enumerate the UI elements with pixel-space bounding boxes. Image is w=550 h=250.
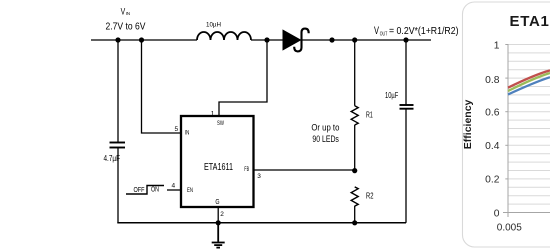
svg-text:5: 5	[175, 126, 179, 133]
svg-text:V: V	[374, 25, 379, 37]
svg-text:1: 1	[211, 110, 215, 117]
curve red	[508, 70, 550, 87]
capacitor C1 4.7uF plates	[110, 143, 126, 148]
svg-text:10µH: 10µH	[206, 22, 221, 29]
svg-text:= 0.2V*(1+R1/R2): = 0.2V*(1+R1/R2)	[389, 25, 459, 37]
chart y axis	[507, 44, 509, 217]
diode D1 schottky bar	[294, 29, 309, 52]
svg-text:ETA1611: ETA1611	[204, 162, 233, 173]
svg-text:1: 1	[494, 41, 500, 52]
chart x axis	[503, 212, 550, 214]
junction FB-R1-R2 node	[352, 168, 357, 173]
chart gridlines	[508, 45, 550, 205]
capacitor C2 10uF plates	[400, 105, 414, 109]
junction R2-ground rail	[352, 220, 357, 225]
curve green	[508, 73, 550, 91]
svg-text:R1: R1	[366, 110, 373, 120]
svg-text:SW: SW	[217, 121, 224, 127]
junction L1-D1-SW node	[264, 37, 269, 42]
wire R1 to FB node	[354, 125, 356, 171]
junction VOUT-R1	[352, 37, 357, 42]
svg-text:0.8: 0.8	[485, 75, 500, 86]
diode D1 schottky triangle	[283, 30, 301, 50]
wire ground rail	[117, 222, 406, 224]
svg-text:Or up to: Or up to	[311, 123, 339, 133]
wire diode to output end	[302, 39, 432, 41]
wire FB pin to divider	[255, 169, 355, 171]
junction VIN-C1	[115, 37, 120, 42]
junction VOUT node	[329, 37, 334, 42]
svg-text:0.2: 0.2	[485, 175, 500, 186]
wire G pin to ground rail	[217, 208, 219, 223]
junction VIN-IN	[139, 37, 144, 42]
chart y major ticks	[505, 45, 508, 179]
wire R1 top lead	[354, 40, 356, 106]
svg-text:OUT: OUT	[380, 32, 388, 38]
svg-text:ON: ON	[151, 187, 159, 194]
wire vin branch to 4.7uF	[117, 40, 119, 142]
svg-text:FB: FB	[244, 167, 249, 173]
wire R2 bottom lead	[354, 206, 356, 223]
svg-text:0.005: 0.005	[497, 223, 522, 234]
svg-text:OFF: OFF	[134, 187, 145, 194]
wire SW pin to inductor-diode node	[219, 40, 267, 115]
resistor R1 zigzag	[351, 106, 358, 125]
wire EN pin	[167, 189, 180, 191]
svg-text:0: 0	[494, 208, 500, 219]
svg-text:ETA16: ETA16	[510, 13, 550, 30]
svg-text:90 LEDs: 90 LEDs	[312, 134, 339, 144]
wire 4.7uF to ground rail	[117, 148, 119, 223]
svg-text:3: 3	[257, 173, 261, 180]
y axis labels	[485, 41, 500, 220]
resistor R2 zigzag	[351, 187, 358, 206]
svg-text:2.7V to 6V: 2.7V to 6V	[106, 21, 146, 33]
inductor L1 10uH	[197, 32, 251, 40]
svg-text:4: 4	[172, 183, 176, 190]
ground	[212, 223, 225, 248]
chart frame	[463, 2, 550, 247]
junction VOUT-C2	[403, 37, 408, 42]
svg-text:R2: R2	[366, 191, 374, 201]
svg-text:EN: EN	[187, 188, 193, 194]
svg-text:2: 2	[220, 211, 224, 218]
svg-text:4.7µF: 4.7µF	[104, 154, 121, 163]
wire 10uF bottom lead	[405, 109, 407, 223]
wire 10uF top lead	[405, 40, 407, 105]
svg-text:IN: IN	[185, 130, 190, 136]
wire top rail left	[91, 39, 197, 41]
svg-text:0.6: 0.6	[485, 108, 500, 119]
svg-text:Efficiency: Efficiency	[462, 99, 474, 149]
svg-text:0.4: 0.4	[485, 141, 500, 152]
schematic labels	[104, 7, 459, 219]
wire inductor to diode	[251, 39, 283, 41]
curve blue	[508, 77, 550, 94]
enable waveform	[126, 186, 164, 195]
svg-text:IN: IN	[126, 11, 130, 16]
IC U1 ETA1611 box	[181, 116, 254, 207]
svg-text:10µF: 10µF	[385, 91, 398, 100]
wire vin branch to IN pin	[142, 40, 181, 133]
svg-text:G: G	[215, 199, 219, 206]
junction G-ground rail	[216, 220, 221, 225]
svg-text:V: V	[121, 7, 126, 17]
